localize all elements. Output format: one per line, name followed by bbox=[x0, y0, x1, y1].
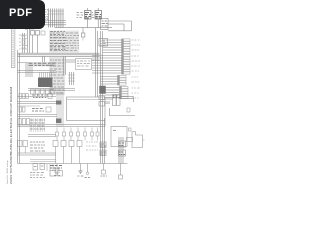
node ticks near strip bbox=[25, 28, 28, 30]
svg-text:ZAXIS 70/75US/80/85USBLOG ELEC: ZAXIS 70/75US/80/85USBLOG ELECTRICAL CIR… bbox=[9, 87, 13, 184]
wire, resistor links bbox=[120, 97, 134, 103]
wire, rb verticals A bbox=[101, 118, 105, 164]
wire, left main verticals bbox=[18, 50, 20, 164]
fuse pair lower-left bbox=[18, 141, 28, 154]
ground G3 bbox=[85, 164, 91, 178]
ground G4 bbox=[101, 164, 108, 177]
switch row S1-S5 bbox=[31, 89, 55, 97]
wire, links mid-low bbox=[28, 135, 56, 137]
relay K1 label bbox=[77, 13, 84, 18]
wire, right of monitor bbox=[105, 99, 113, 102]
fuse holder bbox=[127, 138, 133, 142]
label block left-mid bbox=[30, 118, 45, 132]
pump unit (dark) bbox=[100, 86, 106, 94]
wire, left links lower bbox=[18, 115, 58, 117]
wire bus, battery feed verticals bbox=[47, 9, 64, 28]
wire, fuse drops bbox=[33, 35, 38, 53]
terminal block row 1 bbox=[19, 94, 52, 99]
tick row bbox=[30, 160, 56, 162]
ground G5 bbox=[119, 164, 123, 180]
connector CN201 bbox=[100, 142, 106, 148]
resistor pack R1 bbox=[113, 95, 121, 106]
relay K2 label bbox=[92, 13, 94, 18]
wire, left sub-bus bbox=[21, 33, 26, 53]
wire, top bus to right bbox=[55, 27, 112, 29]
wire, cross links left bbox=[18, 63, 57, 73]
label band terminal names bbox=[28, 62, 56, 67]
inline fuse on drop bbox=[81, 33, 85, 41]
relay K1 bbox=[85, 11, 92, 28]
wire, feeds into A1 bbox=[40, 72, 52, 78]
wire, main horizontal bus bbox=[18, 53, 100, 56]
switch bank lower bbox=[53, 141, 98, 164]
terminal strip TB1 bbox=[11, 27, 15, 68]
wire, drop pair bbox=[43, 56, 45, 63]
terminal block row 2 bbox=[19, 107, 51, 112]
connector CN202 bbox=[100, 150, 106, 156]
sensor boxes bbox=[99, 96, 110, 107]
connector CN203 bbox=[119, 141, 126, 147]
title text (rotated) bbox=[9, 87, 13, 184]
connector CN101 shell bbox=[99, 39, 108, 47]
wire, drop from relay bus bbox=[82, 28, 84, 33]
fuse box labels bbox=[45, 10, 49, 23]
connector CN102 pins bbox=[92, 54, 130, 74]
monitor unit M1 bbox=[67, 97, 106, 121]
control unit A1 (hatched) bbox=[38, 78, 53, 88]
PDF badge bbox=[0, 0, 45, 29]
serial text (rotated) bbox=[6, 160, 9, 184]
wire, loop bottom bbox=[108, 30, 132, 32]
diode row D10-D16 bbox=[56, 128, 100, 141]
svg-text:Serial No. 30001 and up: Serial No. 30001 and up bbox=[6, 160, 9, 184]
breaker CB1 bbox=[33, 164, 38, 171]
wire, loop right upper bbox=[108, 21, 132, 31]
wire, mid-right horizontal bbox=[109, 108, 135, 116]
wire, bottom drops left bbox=[47, 164, 53, 172]
label block lower-left bbox=[30, 142, 45, 151]
connector CN103 pins bbox=[100, 75, 126, 85]
connector CN104 pins bbox=[105, 86, 128, 98]
wire, center verticals bbox=[64, 56, 66, 75]
wire, right-center verticals bbox=[96, 28, 98, 97]
ground G1 bbox=[54, 164, 60, 176]
fuse F1 bbox=[31, 31, 35, 36]
battery label block bbox=[50, 166, 63, 177]
wire, ground bus bbox=[18, 163, 128, 165]
wire, relay top pins bbox=[88, 8, 99, 11]
wire, stub lines near badge bbox=[46, 17, 49, 19]
wire, jb links bbox=[66, 60, 100, 62]
wire, left links bbox=[18, 102, 58, 107]
wire harness matrix B bbox=[50, 57, 65, 95]
connector CN204 bbox=[119, 150, 126, 156]
diode unit D1 bbox=[101, 19, 109, 30]
wire, loop right lower bbox=[108, 24, 124, 31]
fuse F3 bbox=[41, 31, 45, 35]
relay box K10 bbox=[111, 127, 127, 147]
bottom-left labels bbox=[30, 173, 45, 178]
junction box JB1 bbox=[76, 59, 92, 70]
wire, under switches bbox=[18, 96, 57, 98]
wire harness matrix A bbox=[50, 31, 79, 53]
wire, horizontal link pair bbox=[28, 89, 75, 91]
relay bank RB1 bbox=[18, 119, 30, 126]
breaker CB2 bbox=[40, 164, 45, 170]
wire, mid verticals bbox=[68, 72, 75, 85]
wire, long pair under monitor bbox=[18, 121, 106, 127]
node mark bbox=[127, 108, 130, 112]
wire, extra left verticals bbox=[28, 28, 30, 53]
wire, left grid verticals bbox=[26, 63, 32, 78]
connector CN101 pins bbox=[103, 39, 130, 54]
wire harness bundle C bbox=[56, 92, 63, 127]
bracket unit bbox=[132, 132, 145, 148]
relay K2 bbox=[95, 11, 102, 28]
fuse F2 bbox=[36, 31, 40, 36]
left small labels bbox=[19, 35, 27, 49]
ground G2 bbox=[78, 164, 84, 177]
wire, horizontal feed lines bbox=[29, 21, 66, 25]
wire, lower-left links bbox=[18, 153, 57, 155]
wire, rb verticals B bbox=[119, 137, 123, 164]
screw marks bbox=[129, 128, 132, 131]
fusible link box FL1 bbox=[30, 25, 35, 29]
connector pin labels bbox=[132, 40, 141, 98]
wire, right bus pair bbox=[101, 31, 103, 140]
